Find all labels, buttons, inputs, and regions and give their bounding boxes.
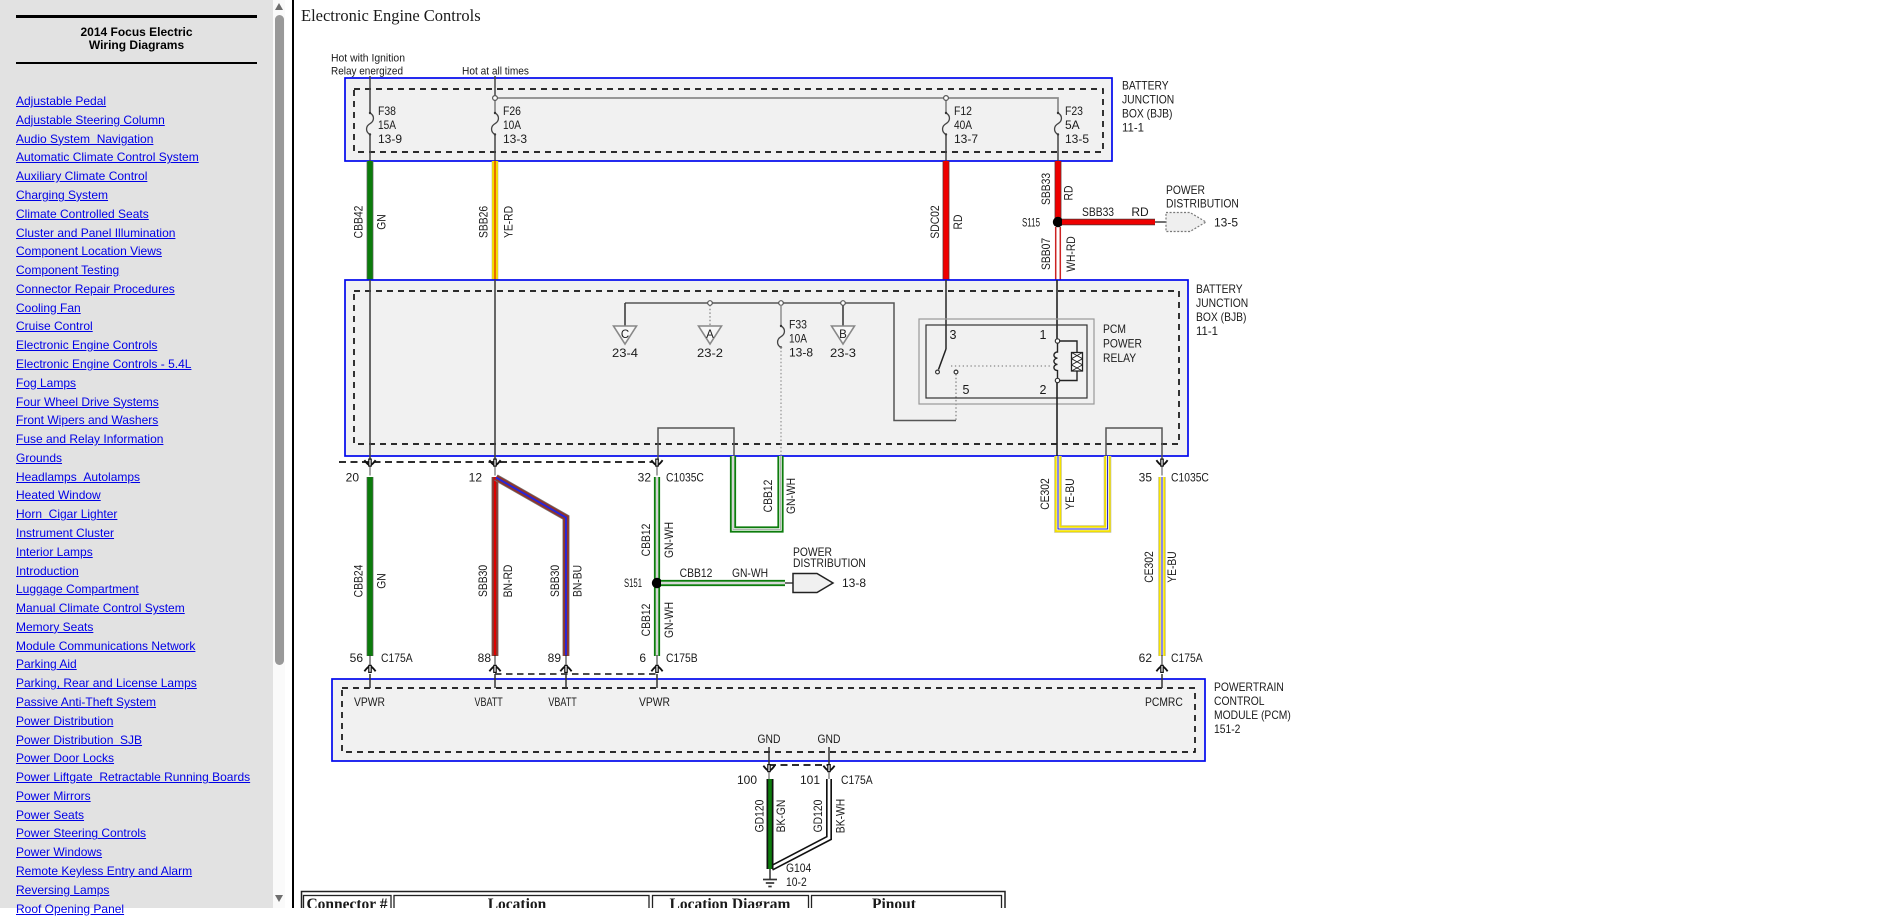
svg-text:VPWR: VPWR bbox=[639, 695, 670, 709]
relay coil resistor bbox=[1060, 341, 1078, 353]
svg-text:C1035C: C1035C bbox=[1171, 471, 1209, 485]
svg-text:SBB30: SBB30 bbox=[548, 565, 562, 597]
svg-text:JUNCTION: JUNCTION bbox=[1122, 93, 1174, 107]
svg-text:40A: 40A bbox=[954, 118, 972, 132]
svg-text:BK-WH: BK-WH bbox=[834, 799, 848, 833]
svg-text:Hot at all times: Hot at all times bbox=[462, 66, 529, 78]
wire F26 out bbox=[494, 135, 496, 162]
wire from Hot at all times to bus bbox=[494, 76, 496, 98]
wire SBB07 to relay coil pin 1 bbox=[1056, 280, 1058, 340]
connector C 23-4 bbox=[624, 303, 626, 326]
svg-text:F38: F38 bbox=[378, 104, 396, 118]
svg-text:GND: GND bbox=[758, 732, 781, 746]
svg-text:VBATT: VBATT bbox=[548, 695, 577, 709]
svg-text:62: 62 bbox=[1139, 651, 1153, 665]
svg-text:100: 100 bbox=[737, 773, 757, 787]
relay coil bbox=[1055, 339, 1059, 343]
svg-text:13-5: 13-5 bbox=[1065, 132, 1089, 146]
wire through BJB2 at F38 branch bbox=[369, 280, 371, 461]
internal wire to pin 35 bbox=[1106, 428, 1162, 461]
wire bus to F12 bbox=[945, 98, 947, 113]
svg-text:S115: S115 bbox=[1022, 216, 1040, 230]
wire link to arrow bbox=[785, 582, 795, 584]
wire bus to F33 bbox=[780, 305, 782, 326]
wire CBB42 GN (green) bbox=[367, 161, 374, 280]
svg-text:VPWR: VPWR bbox=[354, 695, 385, 709]
wire link to pin arrow bbox=[369, 655, 371, 665]
svg-text:13-8: 13-8 bbox=[789, 346, 813, 360]
fuse F33 10A bbox=[778, 326, 785, 348]
svg-text:SBB30: SBB30 bbox=[476, 565, 490, 597]
pin stub into PCM bbox=[565, 674, 567, 688]
connector table bbox=[302, 892, 1006, 916]
connector B 23-3 bbox=[842, 303, 844, 326]
svg-text:BN-BU: BN-BU bbox=[571, 565, 585, 597]
svg-text:GN-WH: GN-WH bbox=[662, 602, 676, 638]
svg-text:Location: Location bbox=[488, 896, 547, 908]
fuse F12 40A bbox=[943, 113, 950, 135]
svg-text:Electronic Engine Controls: Electronic Engine Controls bbox=[301, 6, 481, 25]
svg-text:POWER: POWER bbox=[1103, 337, 1142, 351]
wire link to pin arrow bbox=[565, 655, 567, 665]
BJB1 inner dashed border bbox=[354, 89, 1103, 152]
svg-text:C: C bbox=[621, 329, 629, 341]
connector pin 88 arrow bbox=[489, 656, 500, 672]
wire from Hot with Ignition to F38 bbox=[369, 76, 371, 113]
svg-text:CBB12: CBB12 bbox=[639, 603, 653, 636]
wire bus to F26 bbox=[494, 98, 496, 113]
junction node at F26 bbox=[493, 96, 498, 101]
connector pin 62 arrow bbox=[1156, 656, 1167, 672]
svg-text:13-9: 13-9 bbox=[378, 132, 402, 146]
svg-text:Location Diagram: Location Diagram bbox=[670, 896, 791, 908]
connector C1035C dashed line bbox=[339, 461, 653, 463]
svg-text:YE-BU: YE-BU bbox=[1063, 478, 1077, 510]
svg-text:2: 2 bbox=[1040, 383, 1047, 397]
internal wire to pin 32 bbox=[658, 428, 734, 461]
svg-text:10A: 10A bbox=[789, 332, 807, 346]
svg-text:CBB12: CBB12 bbox=[761, 479, 775, 512]
wire CBB12 GN-WH to power distribution bbox=[661, 580, 785, 586]
pin stub into PCM bbox=[494, 674, 496, 688]
connector A 23-2 bbox=[709, 305, 711, 326]
svg-text:RD: RD bbox=[1062, 185, 1076, 200]
svg-text:F33: F33 bbox=[789, 318, 807, 332]
wire CBB24 GN (green) bbox=[367, 477, 374, 656]
svg-text:BATTERY: BATTERY bbox=[1122, 79, 1169, 93]
svg-text:CE302: CE302 bbox=[1038, 478, 1052, 510]
power distribution arrow 13-8 bbox=[793, 574, 833, 593]
wire SBB33 RD (red) bbox=[1055, 161, 1062, 218]
svg-text:G104: G104 bbox=[786, 861, 812, 875]
svg-text:C175A: C175A bbox=[841, 773, 873, 787]
GND stub bbox=[828, 747, 830, 765]
svg-text:13-8: 13-8 bbox=[842, 576, 866, 590]
svg-text:POWER: POWER bbox=[1166, 183, 1205, 197]
wire CBB12 GN-WH U-loop bbox=[733, 456, 781, 530]
svg-text:32: 32 bbox=[638, 471, 652, 485]
wire SBB30 BN-RD bbox=[492, 477, 499, 656]
junction node at F12 bbox=[944, 96, 949, 101]
svg-text:A: A bbox=[706, 329, 714, 341]
svg-text:23-2: 23-2 bbox=[697, 346, 723, 360]
sidebar scrollbar bbox=[273, 0, 285, 908]
svg-text:56: 56 bbox=[350, 651, 364, 665]
splice node S151 bbox=[652, 578, 662, 588]
fuse F23 5A bbox=[1055, 113, 1062, 135]
connector pin 12 arrow bbox=[489, 459, 500, 475]
svg-text:C175B: C175B bbox=[666, 651, 698, 665]
wire F23 out bbox=[1057, 135, 1059, 162]
svg-text:S151: S151 bbox=[624, 576, 642, 590]
svg-text:BOX (BJB): BOX (BJB) bbox=[1122, 107, 1173, 121]
svg-text:20: 20 bbox=[346, 471, 360, 485]
svg-text:Connector #: Connector # bbox=[306, 896, 387, 908]
pin stub into PCM bbox=[369, 674, 371, 688]
svg-text:13-7: 13-7 bbox=[954, 132, 978, 146]
svg-text:CONTROL: CONTROL bbox=[1214, 694, 1265, 708]
pin stub into PCM bbox=[1161, 674, 1163, 688]
svg-text:35: 35 bbox=[1139, 471, 1153, 485]
fuse F26 10A bbox=[492, 113, 499, 135]
svg-text:11-1: 11-1 bbox=[1196, 324, 1218, 338]
fuse F38 15A bbox=[367, 113, 374, 135]
powertrain control module (PCM) box bbox=[332, 679, 1205, 761]
svg-text:BOX (BJB): BOX (BJB) bbox=[1196, 310, 1247, 324]
svg-text:WH-RD: WH-RD bbox=[1064, 236, 1078, 272]
BJB2 inner dashed border bbox=[354, 291, 1179, 444]
svg-text:PCM: PCM bbox=[1103, 322, 1126, 336]
svg-text:C175A: C175A bbox=[381, 651, 413, 665]
svg-text:3: 3 bbox=[950, 328, 957, 342]
battery junction box 2 (BJB) bbox=[345, 280, 1188, 456]
svg-text:23-3: 23-3 bbox=[830, 346, 856, 360]
internal bus BJB2 from relay pin 5 bbox=[625, 303, 956, 421]
bus junction nodes bbox=[708, 301, 713, 306]
wire CE302 YE-BU vertical bbox=[1158, 477, 1166, 656]
connector pin 100 arrow bbox=[763, 765, 774, 781]
svg-text:BK-GN: BK-GN bbox=[774, 800, 788, 833]
wire link to arrow bbox=[1155, 221, 1166, 223]
svg-text:DISTRIBUTION: DISTRIBUTION bbox=[793, 556, 866, 570]
svg-text:89: 89 bbox=[548, 651, 562, 665]
svg-text:GD120: GD120 bbox=[811, 799, 825, 832]
connector pin 101 arrow bbox=[823, 765, 834, 781]
svg-text:F23: F23 bbox=[1065, 104, 1083, 118]
svg-text:BN-RD: BN-RD bbox=[501, 564, 515, 597]
svg-text:CBB12: CBB12 bbox=[639, 523, 653, 556]
svg-text:12: 12 bbox=[469, 471, 483, 485]
svg-text:CBB42: CBB42 bbox=[352, 205, 366, 238]
wire CBB12 GN-WH vertical bbox=[654, 477, 660, 656]
svg-text:MODULE (PCM): MODULE (PCM) bbox=[1214, 708, 1291, 722]
svg-text:13-5: 13-5 bbox=[1214, 216, 1238, 230]
wire SBB26 YE-RD (yellow/red) bbox=[492, 161, 499, 280]
wire F12 out bbox=[945, 135, 947, 162]
svg-text:RELAY: RELAY bbox=[1103, 351, 1136, 365]
svg-text:C1035C: C1035C bbox=[666, 471, 704, 485]
svg-text:88: 88 bbox=[478, 651, 492, 665]
wire link to pin arrow bbox=[494, 655, 496, 665]
connector pin 32 arrow bbox=[651, 459, 662, 475]
svg-text:VBATT: VBATT bbox=[475, 695, 504, 709]
svg-text:Hot with Ignition: Hot with Ignition bbox=[331, 53, 405, 65]
wire F33 out (dotted) bbox=[780, 347, 782, 456]
wire GD120 BK-WH bbox=[772, 779, 830, 868]
svg-text:C175A: C175A bbox=[1171, 651, 1203, 665]
svg-text:SBB07: SBB07 bbox=[1039, 238, 1053, 270]
frame divider bbox=[292, 0, 294, 908]
connector pin 35 arrow bbox=[1156, 459, 1167, 475]
svg-text:SDC02: SDC02 bbox=[928, 205, 942, 239]
svg-text:13-3: 13-3 bbox=[503, 132, 527, 146]
connector pin 6 arrow bbox=[651, 656, 662, 672]
svg-text:YE-BU: YE-BU bbox=[1165, 551, 1179, 583]
svg-text:10-2: 10-2 bbox=[786, 875, 807, 889]
connector pin 56 arrow bbox=[364, 656, 375, 672]
svg-text:15A: 15A bbox=[378, 118, 396, 132]
svg-text:SBB26: SBB26 bbox=[477, 206, 491, 238]
wire through BJB2 at F26 branch bbox=[494, 280, 496, 461]
relay PCM POWER RELAY bbox=[919, 319, 1094, 404]
wire GD120 BK-GN bbox=[767, 779, 774, 869]
svg-text:Pinout: Pinout bbox=[872, 896, 917, 908]
svg-text:151-2: 151-2 bbox=[1214, 722, 1241, 736]
svg-text:GN-WH: GN-WH bbox=[732, 566, 768, 580]
svg-text:GD120: GD120 bbox=[753, 799, 767, 832]
pin stub into PCM bbox=[656, 674, 658, 688]
svg-text:PCMRC: PCMRC bbox=[1145, 695, 1183, 709]
power distribution arrow 13-5 bbox=[1166, 213, 1206, 232]
svg-text:101: 101 bbox=[800, 773, 820, 787]
svg-text:CBB24: CBB24 bbox=[352, 564, 366, 597]
connector C175A dashed line bbox=[769, 764, 829, 766]
svg-text:POWERTRAIN: POWERTRAIN bbox=[1214, 680, 1284, 694]
internal bus BJB1 bbox=[495, 98, 1058, 113]
svg-text:6: 6 bbox=[639, 651, 646, 665]
dotted wire relay pin5 bbox=[955, 374, 957, 420]
svg-text:SBB33: SBB33 bbox=[1082, 205, 1114, 219]
wire SDC02 to relay pin 3 bbox=[945, 280, 947, 349]
svg-text:F12: F12 bbox=[954, 104, 972, 118]
connector pin 89 arrow bbox=[560, 656, 571, 672]
svg-text:Relay energized: Relay energized bbox=[331, 66, 403, 78]
svg-text:DISTRIBUTION: DISTRIBUTION bbox=[1166, 197, 1239, 211]
svg-text:23-4: 23-4 bbox=[612, 346, 638, 360]
svg-text:YE-RD: YE-RD bbox=[502, 206, 516, 238]
connector pin 20 arrow bbox=[364, 459, 375, 475]
svg-text:CE302: CE302 bbox=[1142, 551, 1156, 583]
relay actuation dotted link bbox=[951, 365, 1050, 367]
svg-text:GN: GN bbox=[375, 573, 389, 589]
wire F38 out bbox=[369, 135, 371, 162]
wire SDC02 RD (red) bbox=[943, 161, 950, 280]
svg-text:GND: GND bbox=[818, 732, 841, 746]
svg-text:10A: 10A bbox=[503, 118, 521, 132]
svg-text:RD: RD bbox=[1131, 205, 1149, 219]
svg-text:5: 5 bbox=[963, 383, 970, 397]
PCM inner dashed border bbox=[342, 688, 1195, 752]
svg-text:GN: GN bbox=[375, 214, 389, 230]
splice node S115 bbox=[1053, 217, 1063, 227]
svg-text:11-1: 11-1 bbox=[1122, 121, 1144, 135]
svg-text:B: B bbox=[839, 329, 847, 341]
svg-text:1: 1 bbox=[1040, 328, 1047, 342]
wire relay coil pin 2 out bbox=[1056, 383, 1058, 456]
ground G104 bbox=[769, 869, 771, 879]
wire link to pin arrow bbox=[1161, 655, 1163, 665]
svg-text:SBB33: SBB33 bbox=[1039, 173, 1053, 205]
svg-text:GN-WH: GN-WH bbox=[784, 478, 798, 514]
GND stub bbox=[768, 747, 770, 765]
svg-text:RD: RD bbox=[951, 214, 965, 229]
wire SBB30 BN-BU bbox=[496, 478, 566, 657]
svg-text:JUNCTION: JUNCTION bbox=[1196, 296, 1248, 310]
svg-text:BATTERY: BATTERY bbox=[1196, 282, 1243, 296]
wire link to pin arrow bbox=[656, 655, 658, 665]
svg-text:GN-WH: GN-WH bbox=[662, 522, 676, 558]
wire CE302 YE-BU U-loop bbox=[1058, 456, 1108, 529]
relay switch bbox=[939, 349, 947, 370]
wire SBB07 WH-RD (white/red) bbox=[1055, 227, 1057, 280]
battery junction box 1 (BJB) bbox=[345, 78, 1112, 161]
connector C175 dashed line bbox=[495, 673, 657, 675]
svg-text:5A: 5A bbox=[1065, 118, 1080, 132]
svg-text:CBB12: CBB12 bbox=[680, 566, 713, 580]
svg-text:F26: F26 bbox=[503, 104, 521, 118]
wire SBB33 RD horizontal to power distribution bbox=[1062, 219, 1155, 225]
